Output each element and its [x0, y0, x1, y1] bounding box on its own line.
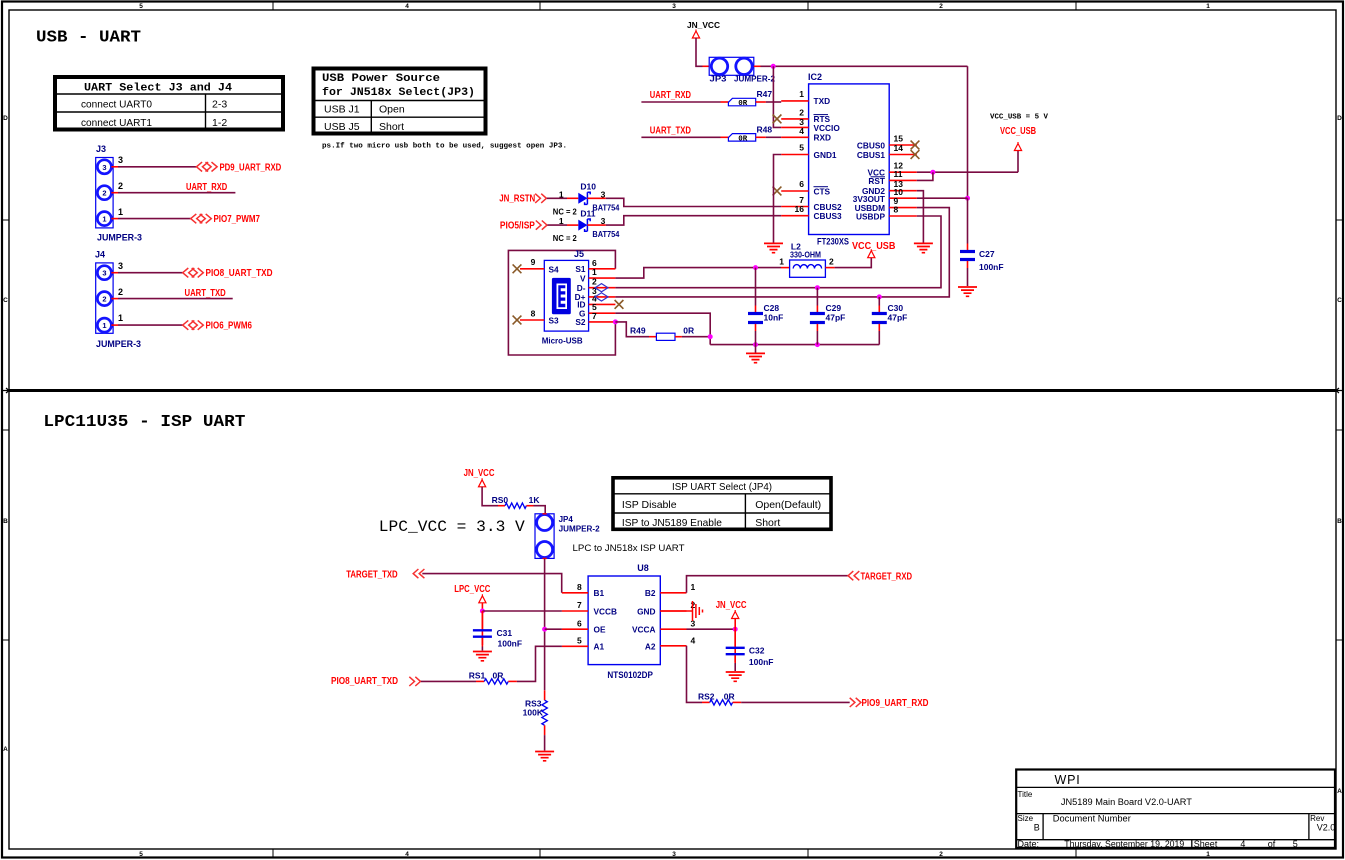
- svg-text:100nF: 100nF: [979, 262, 1004, 272]
- svg-text:2: 2: [118, 287, 123, 297]
- svg-text:UART_TXD: UART_TXD: [650, 125, 691, 136]
- svg-text:R47: R47: [757, 89, 773, 99]
- svg-text:6: 6: [577, 618, 582, 628]
- svg-text:11: 11: [894, 169, 903, 179]
- wire J3 pin3 to PD9_UART_RXD: [111, 166, 118, 168]
- svg-text:connect UART0: connect UART0: [81, 99, 152, 111]
- svg-text:UART Select J3 and J4: UART Select J3 and J4: [84, 83, 232, 95]
- ground sideways at U8 GND: [693, 601, 703, 621]
- junction 3V3OUT at C27 rail: [965, 196, 970, 201]
- resistor R50 1K: [492, 495, 541, 508]
- svg-text:S4: S4: [549, 264, 560, 274]
- svg-text:BAT754: BAT754: [592, 202, 619, 212]
- svg-text:3: 3: [118, 261, 123, 271]
- wire GND2 pin13 to ground: [917, 191, 924, 243]
- svg-text:4: 4: [799, 126, 804, 136]
- U8 left pin stubs: [562, 593, 588, 647]
- svg-text:2: 2: [829, 257, 834, 267]
- svg-text:100nF: 100nF: [749, 657, 774, 667]
- svg-text:IC2: IC2: [808, 72, 822, 82]
- wire bottom ground rail: [710, 344, 879, 346]
- svg-text:PIO5/ISP: PIO5/ISP: [500, 220, 535, 231]
- svg-text:4: 4: [691, 636, 696, 646]
- wire R47 to IC2 TXD: [756, 101, 766, 103]
- J5 left pin stubs: [520, 269, 544, 320]
- ground at C32: [726, 672, 745, 681]
- IC U8 NTS0102DP body: [588, 563, 660, 680]
- no-connect X J5 pin9 S4: [513, 264, 522, 273]
- jumper J4: [95, 250, 141, 350]
- svg-text:JUMPER-2: JUMPER-2: [559, 524, 601, 533]
- svg-text:USB - UART: USB - UART: [36, 29, 141, 48]
- svg-text:3: 3: [672, 3, 676, 10]
- wire J3 pin1 to PIO7_PWM7: [111, 218, 118, 220]
- svg-text:A: A: [1337, 788, 1342, 795]
- svg-text:TARGET_RXD: TARGET_RXD: [861, 571, 913, 582]
- wire L2 to VCC_USB: [835, 258, 872, 268]
- svg-text:connect UART1: connect UART1: [81, 117, 152, 129]
- svg-text:LPC_VCC: LPC_VCC: [454, 584, 490, 595]
- svg-text:D10: D10: [580, 181, 596, 191]
- junction JP3 rail: [771, 64, 776, 69]
- svg-text:V2.0: V2.0: [1317, 823, 1336, 833]
- wire RST pin11 jog to VCC: [917, 172, 933, 180]
- svg-text:JN_VCC: JN_VCC: [464, 468, 495, 479]
- ESD diamond marker on D+ stub: [595, 293, 608, 301]
- port PIO8_UART_TXD at J4: [183, 268, 273, 279]
- wire J4 pin1 to PIO6_PWM6: [111, 324, 118, 326]
- capacitor C30 47pF: [872, 297, 908, 345]
- wire VCC pin12 to VCC_USB riser: [917, 171, 1018, 173]
- wire U8 GND pin2 stub: [660, 610, 692, 612]
- svg-text:B: B: [3, 518, 8, 525]
- IC2 left pin numbers: [795, 89, 805, 214]
- no-connect X IC2 pin6 CTS: [773, 187, 782, 196]
- svg-text:C30: C30: [888, 303, 904, 313]
- wire JN_VCC triangle to junction: [734, 619, 736, 630]
- junction VBUS at C28: [753, 265, 758, 270]
- U8 right pin stubs: [660, 593, 686, 646]
- svg-text:Document Number: Document Number: [1053, 814, 1131, 824]
- wire UART_RXD to R47: [641, 101, 720, 103]
- svg-text:7: 7: [592, 311, 597, 321]
- wire U8 A2 to RS2: [687, 646, 703, 703]
- wire LPC_VCC to VCCB: [481, 603, 483, 611]
- wire JP3 pin2 to JN_VCC rail: [754, 65, 761, 67]
- svg-text:1: 1: [118, 207, 123, 217]
- junction LPC_VCC C31: [480, 609, 485, 614]
- svg-text:1: 1: [1206, 3, 1210, 10]
- junction rail at C28: [753, 342, 758, 347]
- jumper JP4: [535, 514, 600, 559]
- svg-text:1: 1: [1206, 851, 1210, 858]
- section divider line: [9, 389, 1336, 392]
- J5 right pin names: [575, 264, 586, 327]
- ground at GND2: [914, 243, 933, 252]
- wire S2 jog to R49: [615, 322, 649, 337]
- svg-text:C31: C31: [497, 628, 513, 638]
- svg-text:C29: C29: [826, 303, 842, 313]
- svg-text:JN_VCC: JN_VCC: [716, 600, 747, 611]
- svg-text:A1: A1: [594, 642, 605, 652]
- svg-text:J4: J4: [95, 250, 105, 260]
- svg-text:8: 8: [894, 205, 899, 215]
- svg-text:A: A: [3, 746, 8, 753]
- junction VCCA JN_VCC C32: [733, 627, 738, 632]
- svg-text:S2: S2: [575, 317, 586, 327]
- IC2 right pin numbers: [894, 134, 904, 215]
- ground at GND1: [764, 243, 783, 252]
- svg-text:C: C: [3, 297, 8, 304]
- svg-text:PIO8_UART_TXD: PIO8_UART_TXD: [331, 676, 398, 687]
- junction VCC RST tie: [930, 170, 935, 175]
- IC U IC2 FT230XS body: [808, 72, 889, 247]
- svg-text:A2: A2: [645, 642, 656, 652]
- resistor R47 0R: [728, 89, 772, 108]
- ground at C28: [746, 353, 765, 362]
- power symbol JN_VCC at U8: [716, 600, 747, 619]
- capacitor C31 100nF: [473, 611, 522, 651]
- svg-text:9: 9: [531, 257, 536, 267]
- svg-text:OE: OE: [594, 625, 606, 635]
- wire JN_VCC to R50: [482, 487, 498, 506]
- wire USB D+ line to IC2 USBDM: [615, 208, 949, 297]
- svg-text:0R: 0R: [724, 691, 735, 701]
- junction OE at JP4 rail: [542, 627, 547, 632]
- svg-text:RS1: RS1: [469, 671, 486, 681]
- svg-text:USBDP: USBDP: [856, 211, 886, 221]
- diode D10 BAT754: [553, 181, 620, 216]
- svg-text:UART_RXD: UART_RXD: [186, 182, 227, 193]
- svg-text:1: 1: [799, 89, 804, 99]
- svg-text:5: 5: [139, 851, 143, 858]
- U8 pin names: [594, 588, 656, 652]
- wire JN_VCC rail down right side to 3V3OUT: [967, 66, 969, 198]
- svg-text:NC = 2: NC = 2: [553, 206, 577, 216]
- wire 3V3OUT pin10 to rail: [917, 197, 968, 199]
- svg-text:0R: 0R: [738, 100, 748, 108]
- svg-text:JP3: JP3: [710, 74, 727, 84]
- svg-text:2: 2: [102, 295, 106, 304]
- svg-text:Micro-USB: Micro-USB: [542, 336, 583, 346]
- svg-text:ISP Disable: ISP Disable: [622, 499, 677, 511]
- junction rail at C29: [815, 342, 820, 347]
- svg-text:CBUS3: CBUS3: [814, 211, 843, 221]
- svg-text:JP4: JP4: [559, 515, 574, 524]
- svg-text:NTS0102DP: NTS0102DP: [607, 670, 653, 680]
- wire UART_TXD to R48: [641, 136, 720, 138]
- svg-text:1: 1: [102, 215, 106, 224]
- junction D+ line at C30: [877, 294, 882, 299]
- diode D11 BAT754: [553, 209, 620, 244]
- svg-text:5: 5: [799, 143, 804, 153]
- svg-text:1: 1: [691, 582, 696, 592]
- svg-text:Short: Short: [755, 517, 780, 529]
- svg-text:LPC to JN518x ISP UART: LPC to JN518x ISP UART: [573, 543, 685, 554]
- svg-text:USB J1: USB J1: [324, 104, 360, 116]
- svg-text:1K: 1K: [529, 495, 541, 505]
- IC2 right pin names: [853, 140, 886, 221]
- capacitor C28 10nF: [748, 268, 783, 345]
- resistor RS1 0R: [469, 671, 509, 685]
- ground at C27: [958, 287, 977, 296]
- svg-text:NC = 2: NC = 2: [553, 233, 577, 243]
- svg-text:6: 6: [799, 179, 804, 189]
- svg-text:1: 1: [559, 189, 564, 199]
- svg-text:C32: C32: [749, 646, 765, 656]
- svg-text:1: 1: [102, 321, 106, 330]
- svg-text:1: 1: [592, 267, 597, 277]
- svg-text:U8: U8: [637, 563, 649, 573]
- wire C28 ground stub: [755, 345, 757, 353]
- IC2 right pin stubs: [889, 145, 917, 216]
- svg-text:GND1: GND1: [814, 150, 837, 160]
- wire OE junction to U8 OE pin: [545, 628, 562, 630]
- U8 pin numbers: [577, 582, 696, 646]
- svg-text:B: B: [1337, 518, 1342, 525]
- svg-text:S3: S3: [549, 316, 560, 326]
- wire PIO8_UART_TXD to RS1: [421, 680, 476, 682]
- svg-text:ISP to JN5189 Enable: ISP to JN5189 Enable: [622, 517, 722, 529]
- port PIO7_PWM7: [191, 214, 261, 225]
- inductor L2 330-OHM: [779, 242, 834, 278]
- svg-text:UART_TXD: UART_TXD: [185, 288, 226, 299]
- svg-text:1: 1: [118, 313, 123, 323]
- svg-text:FT230XS: FT230XS: [817, 237, 849, 247]
- svg-text:Date:: Date:: [1018, 839, 1040, 849]
- junction R49 ground rail: [708, 334, 713, 339]
- svg-text:2: 2: [939, 3, 943, 10]
- resistor RS3 100K pulldown: [523, 690, 548, 735]
- junction S2 shield node: [613, 319, 618, 324]
- wire RS3 to ground: [544, 735, 546, 750]
- capacitor C27 100nF: [960, 198, 1004, 286]
- svg-text:C: C: [1337, 297, 1342, 304]
- svg-text:Title: Title: [1018, 790, 1033, 799]
- svg-text:16: 16: [795, 204, 805, 214]
- ground at C31: [473, 652, 492, 661]
- port PIO9_UART_RXD: [850, 698, 929, 709]
- svg-text:3: 3: [102, 163, 106, 172]
- no-connect X IC2 pin2 RTS: [773, 115, 782, 124]
- svg-text:1: 1: [559, 216, 564, 226]
- svg-text:B2: B2: [645, 588, 656, 598]
- svg-text:PIO7_PWM7: PIO7_PWM7: [214, 214, 261, 225]
- svg-text:330-OHM: 330-OHM: [790, 249, 821, 259]
- svg-text:of: of: [1268, 839, 1276, 849]
- svg-text:C27: C27: [979, 249, 995, 259]
- svg-text:RXD: RXD: [814, 133, 832, 143]
- svg-text:5: 5: [1293, 839, 1298, 849]
- svg-text:15: 15: [894, 134, 904, 144]
- svg-text:47pF: 47pF: [826, 313, 846, 323]
- svg-text:Open: Open: [379, 104, 405, 116]
- title block frame: [1016, 770, 1335, 848]
- wire J4 pin3 to PIO8_UART_TXD: [111, 272, 118, 274]
- svg-text:VCC_USB: VCC_USB: [852, 241, 895, 252]
- svg-text:4: 4: [1240, 839, 1245, 849]
- svg-text:USB Power Source: USB Power Source: [322, 73, 440, 85]
- svg-text:2-3: 2-3: [212, 99, 227, 111]
- wire D11 cathode to IC2 CBUS3: [587, 224, 605, 226]
- svg-text:100K: 100K: [523, 708, 544, 718]
- capacitor C29 47pF: [810, 288, 845, 345]
- svg-text:PD9_UART_RXD: PD9_UART_RXD: [220, 162, 282, 173]
- svg-text:3: 3: [102, 269, 106, 278]
- svg-text:B1: B1: [594, 588, 605, 598]
- wire U8 VCCA to JN_VCC: [687, 628, 736, 630]
- svg-text:D: D: [3, 115, 8, 122]
- wire R50 to JP4 pin1: [526, 505, 533, 507]
- svg-text:R49: R49: [630, 326, 646, 336]
- J5 left pin numbers and names: [531, 257, 559, 326]
- svg-text:14: 14: [894, 143, 904, 153]
- wire J5 shield loop: [508, 250, 615, 355]
- svg-text:R48: R48: [757, 124, 773, 134]
- port TARGET_RXD: [848, 571, 912, 582]
- svg-text:LPC11U35 - ISP UART: LPC11U35 - ISP UART: [43, 413, 245, 432]
- J5 USB icon: [552, 278, 571, 314]
- svg-text:B: B: [1034, 823, 1040, 833]
- J5 right pin numbers: [592, 258, 597, 321]
- svg-text:USB J5: USB J5: [324, 121, 360, 133]
- ground at RS3: [535, 752, 554, 761]
- svg-text:Open(Default): Open(Default): [755, 499, 821, 511]
- svg-text:PIO8_UART_TXD: PIO8_UART_TXD: [206, 268, 273, 279]
- svg-text:CTS: CTS: [814, 186, 831, 196]
- port PIO6_PWM6: [183, 320, 253, 331]
- svg-text:TARGET_TXD: TARGET_TXD: [346, 570, 398, 581]
- svg-text:VCC_USB: VCC_USB: [1000, 126, 1036, 137]
- svg-text:4: 4: [405, 851, 409, 858]
- svg-text:GND: GND: [637, 606, 655, 616]
- svg-text:8: 8: [531, 309, 536, 319]
- wire D10 cathode to IC2 CBUS2: [587, 197, 605, 199]
- svg-text:2: 2: [118, 181, 123, 191]
- wire TARGET_TXD to U8 B1: [422, 574, 561, 593]
- junction D- line at C29: [815, 285, 820, 290]
- svg-text:0R: 0R: [683, 326, 694, 336]
- wire JN_VCC rail down to VCCIO: [773, 66, 781, 127]
- wire RS2 to PIO9_UART_RXD: [733, 701, 742, 703]
- svg-text:3: 3: [118, 155, 123, 165]
- svg-text:Sheet: Sheet: [1194, 839, 1218, 849]
- svg-text:RST: RST: [868, 176, 885, 186]
- wire J3 pin2 UART_RXD stub: [111, 192, 118, 194]
- jumper J3: [96, 144, 142, 243]
- svg-text:5: 5: [139, 3, 143, 10]
- svg-text:BAT754: BAT754: [592, 229, 619, 239]
- svg-text:Size: Size: [1018, 814, 1034, 823]
- wire JN_RSTN to D10 anode: [547, 197, 567, 199]
- title block texts: [1018, 773, 1336, 849]
- no-connect X J5 pin4 ID: [615, 300, 624, 309]
- svg-text:UART_RXD: UART_RXD: [650, 90, 691, 101]
- power symbol VCC_USB at L2: [852, 241, 895, 258]
- svg-text:V: V: [580, 273, 586, 283]
- jumper JP3: [709, 57, 775, 83]
- ESD diamond marker on D- stub: [595, 284, 608, 292]
- section divider margin arrows: [3, 388, 1343, 393]
- svg-text:2: 2: [939, 851, 943, 858]
- wire R49 to ground rail: [682, 336, 710, 338]
- wire U8 B2 to TARGET_RXD: [687, 576, 849, 593]
- port TARGET_TXD: [346, 569, 424, 581]
- svg-text:VCCB: VCCB: [594, 606, 618, 616]
- svg-text:JUMPER-2: JUMPER-2: [734, 74, 775, 84]
- resistor R48 0R: [728, 124, 772, 143]
- svg-text:47pF: 47pF: [888, 313, 908, 323]
- svg-text:100nF: 100nF: [498, 639, 523, 649]
- J5 right pin stubs: [589, 269, 616, 322]
- power symbol LPC_VCC: [454, 584, 490, 603]
- svg-text:Thursday, September 19, 2019: Thursday, September 19, 2019: [1064, 839, 1184, 849]
- svg-text:0R: 0R: [493, 671, 504, 681]
- no-connect X IC2 pin14 CBUS1: [911, 150, 920, 159]
- svg-text:JN5189 Main Board V2.0-UART: JN5189 Main Board V2.0-UART: [1061, 797, 1193, 807]
- svg-text:J5: J5: [574, 249, 584, 259]
- svg-text:TXD: TXD: [814, 96, 831, 106]
- no-connect X IC2 pin15 CBUS0: [911, 141, 920, 150]
- svg-text:ISP UART Select (JP4): ISP UART Select (JP4): [672, 481, 772, 493]
- svg-text:2: 2: [102, 189, 106, 198]
- svg-text:PIO9_UART_RXD: PIO9_UART_RXD: [862, 698, 929, 709]
- port chevron PIO5/ISP: [536, 221, 547, 230]
- wire JN_VCC to JP3 pin1: [696, 38, 703, 66]
- svg-text:JUMPER-3: JUMPER-3: [97, 233, 142, 243]
- svg-text:Short: Short: [379, 121, 404, 133]
- svg-text:D: D: [1337, 115, 1342, 122]
- svg-text:JN_VCC: JN_VCC: [687, 21, 720, 30]
- wire GND1 pin5 to ground: [774, 155, 782, 243]
- wire PIO5/ISP to D11 anode: [547, 224, 567, 226]
- power symbol VCC_USB right: [1000, 126, 1036, 151]
- svg-text:VCC_USB = 5 V: VCC_USB = 5 V: [990, 114, 1048, 122]
- svg-text:CBUS0: CBUS0: [857, 140, 886, 150]
- port PIO8_UART_TXD bottom: [331, 676, 421, 687]
- svg-text:4: 4: [405, 3, 409, 10]
- svg-text:JN_RSTN: JN_RSTN: [499, 193, 535, 204]
- svg-text:D11: D11: [580, 209, 595, 219]
- IC2 left pin names: [814, 96, 843, 221]
- svg-text:for JN518x Select(JP3): for JN518x Select(JP3): [322, 87, 475, 99]
- wire USB G pin to R49 node: [615, 313, 710, 344]
- table UART Select J3 and J4: [55, 77, 283, 130]
- wire R48 to IC2 RXD: [756, 136, 766, 138]
- IC2 left pin stubs: [781, 101, 808, 216]
- wire RS1 to U8 A1: [508, 680, 517, 682]
- svg-text:RS2: RS2: [698, 691, 715, 701]
- port PD9_UART_RXD: [197, 162, 282, 173]
- no-connect X J5 pin8 S3: [513, 316, 522, 325]
- connector J5 Micro-USB body: [542, 249, 589, 346]
- svg-text:LPC_VCC = 3.3 V: LPC_VCC = 3.3 V: [379, 518, 525, 536]
- svg-text:0R: 0R: [738, 136, 748, 144]
- svg-text:1: 1: [779, 257, 784, 267]
- svg-text:J3: J3: [96, 144, 106, 154]
- svg-text:VCCA: VCCA: [632, 625, 656, 635]
- svg-text:PIO6_PWM6: PIO6_PWM6: [206, 321, 253, 332]
- wire USB D- line to IC2 USBDP: [615, 216, 941, 288]
- svg-text:CBUS1: CBUS1: [857, 150, 886, 160]
- svg-text:C28: C28: [764, 303, 780, 313]
- resistor R49 0R: [630, 326, 694, 341]
- power symbol JN_VCC at R50: [464, 468, 495, 487]
- svg-text:5: 5: [577, 636, 582, 646]
- wire JP4 pin2 down OE net: [544, 558, 546, 690]
- svg-text:3: 3: [672, 851, 676, 858]
- port chevron JN_RSTN: [535, 194, 546, 203]
